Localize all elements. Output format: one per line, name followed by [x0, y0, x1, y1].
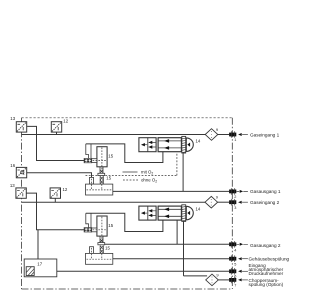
- wire: 13a to valve fitting row1: [27, 126, 84, 160]
- svg-text:mit O2: mit O2: [141, 170, 153, 176]
- svg-text:ohne O2: ohne O2: [141, 178, 157, 184]
- microflow sensor dome 14 row1: [186, 138, 193, 152]
- port 7 Chopperraumspuelung: [229, 277, 248, 284]
- svg-text:7: 7: [234, 283, 236, 287]
- svg-text:Druckaufnehmer: Druckaufnehmer: [249, 271, 284, 276]
- svg-text:9: 9: [216, 127, 219, 132]
- valve block 15 lower row1: [86, 177, 113, 195]
- wire: chamber row2 drop to chopper purge: [183, 220, 185, 276]
- enclosure top dashed edge: [22, 117, 233, 119]
- svg-text:14: 14: [196, 207, 201, 212]
- svg-text:2: 2: [234, 195, 236, 199]
- wire: outlet line to port 5: [113, 258, 229, 260]
- svg-text:15: 15: [105, 246, 110, 251]
- wire: row2 main gas line y=201.7: [22, 201, 206, 203]
- enclosure right dash-dot wall: [231, 118, 233, 289]
- wire: diamond row3 to port 7: [218, 279, 229, 281]
- pressure sensor box 17: [24, 259, 57, 277]
- flow cell box row2: [139, 206, 156, 220]
- microflow sensor dome 14 row2: [186, 206, 193, 220]
- legend line dashed (ohne O2): [123, 179, 139, 181]
- restrictor 12a: [51, 122, 61, 132]
- wire: row1 main gas line y=134: [22, 134, 206, 136]
- adjustable restrictor 16: [16, 167, 26, 177]
- filter diamond 9 row1: [205, 129, 218, 141]
- svg-text:15: 15: [108, 154, 113, 159]
- svg-text:Gaseingang 1: Gaseingang 1: [250, 132, 280, 137]
- svg-text:5: 5: [234, 262, 236, 266]
- svg-text:13: 13: [10, 183, 15, 188]
- wire: box17 to port 6: [57, 270, 229, 272]
- svg-text:14: 14: [196, 138, 201, 143]
- chamber arrows row1: [164, 139, 169, 150]
- port numbers: [234, 138, 236, 287]
- svg-text:12: 12: [63, 187, 68, 192]
- port 2 Gasausgang 1: [229, 188, 248, 195]
- X joint column row2: [100, 246, 103, 254]
- wire: diamond row2 to port 3: [218, 201, 230, 203]
- restrictor 12b: [50, 188, 60, 198]
- svg-text:13: 13: [10, 116, 15, 121]
- filter diamond 9 row3: [206, 274, 219, 286]
- wire: diamond row1 to port 1: [218, 134, 229, 136]
- enclosure left dash-dot wall: [21, 118, 23, 289]
- wire: box17 riser: [37, 230, 39, 259]
- svg-text:4: 4: [234, 249, 236, 253]
- svg-text:9: 9: [216, 195, 219, 200]
- svg-text:1: 1: [234, 138, 236, 142]
- wire: outlet line to port 4: [104, 243, 230, 245]
- flow cell arrows row2: [141, 209, 152, 217]
- valve block 15 upper row1: [81, 144, 107, 176]
- fitting on valve row1: [84, 158, 92, 162]
- svg-text:17: 17: [37, 261, 42, 266]
- svg-text:12: 12: [63, 119, 68, 124]
- svg-text:15: 15: [108, 223, 113, 228]
- port 4 Gasausgang 2: [229, 241, 248, 248]
- svg-text:15: 15: [106, 176, 111, 181]
- flow cell box row1: [139, 138, 156, 152]
- wire: valve pipe to chamber row1: [86, 144, 163, 163]
- wire: chamber row1 drop to outlet: [182, 153, 184, 191]
- chamber arrows row2: [164, 208, 169, 219]
- svg-text:Gaseingang 2: Gaseingang 2: [250, 200, 280, 205]
- membrane bars row1: [182, 136, 186, 153]
- filter diamond 9 row2: [205, 196, 218, 208]
- svg-text:Gehäusebespülung: Gehäusebespülung: [249, 257, 290, 262]
- wire: restrictor 12a tick: [56, 132, 58, 134]
- port 6 Druckaufnehmer Eingang: [229, 268, 248, 275]
- valve block 15 upper row2: [81, 213, 107, 245]
- pressure switch 13b: [16, 188, 26, 198]
- pressure switch 13a: [16, 122, 26, 132]
- wire: chamber row2 drop to port4 line: [176, 220, 178, 244]
- wire: 13b to valve fitting row2: [26, 193, 84, 230]
- wire: outlet line to port 2: [113, 190, 229, 192]
- svg-text:spülung (Option): spülung (Option): [249, 282, 284, 287]
- enclosure bottom dash-dot edge: [22, 288, 233, 290]
- flow cell arrows row1: [141, 141, 152, 149]
- wire: restrictor 12b tick: [54, 198, 56, 202]
- svg-text:Gasausgang 1: Gasausgang 1: [250, 189, 281, 194]
- port 1 Gaseingang 1: [229, 131, 248, 138]
- wire: 16 to valve foot row1: [27, 173, 92, 178]
- svg-text:6: 6: [234, 275, 236, 279]
- svg-text:3: 3: [234, 206, 236, 210]
- fitting on valve row2: [84, 228, 92, 232]
- wire: to diamond filter row3: [184, 275, 208, 277]
- svg-text:16: 16: [10, 163, 15, 168]
- X joint column row1: [100, 176, 103, 184]
- legend line solid (mit O2): [123, 171, 138, 173]
- port 3 Gaseingang 2: [229, 199, 248, 206]
- valve block 15 lower row2: [86, 247, 113, 265]
- svg-text:Gasausgang 2: Gasausgang 2: [250, 243, 281, 248]
- measuring chamber row2: [158, 206, 181, 220]
- wire: valve pipe to chamber row2: [86, 213, 163, 231]
- measuring chamber row1: [158, 138, 181, 152]
- membrane bars row2: [182, 205, 186, 222]
- port 5 Gehaeusebespuelung: [229, 255, 248, 262]
- svg-text:9: 9: [216, 272, 219, 277]
- dashed alternative route (ohne O2) row1: [86, 153, 177, 175]
